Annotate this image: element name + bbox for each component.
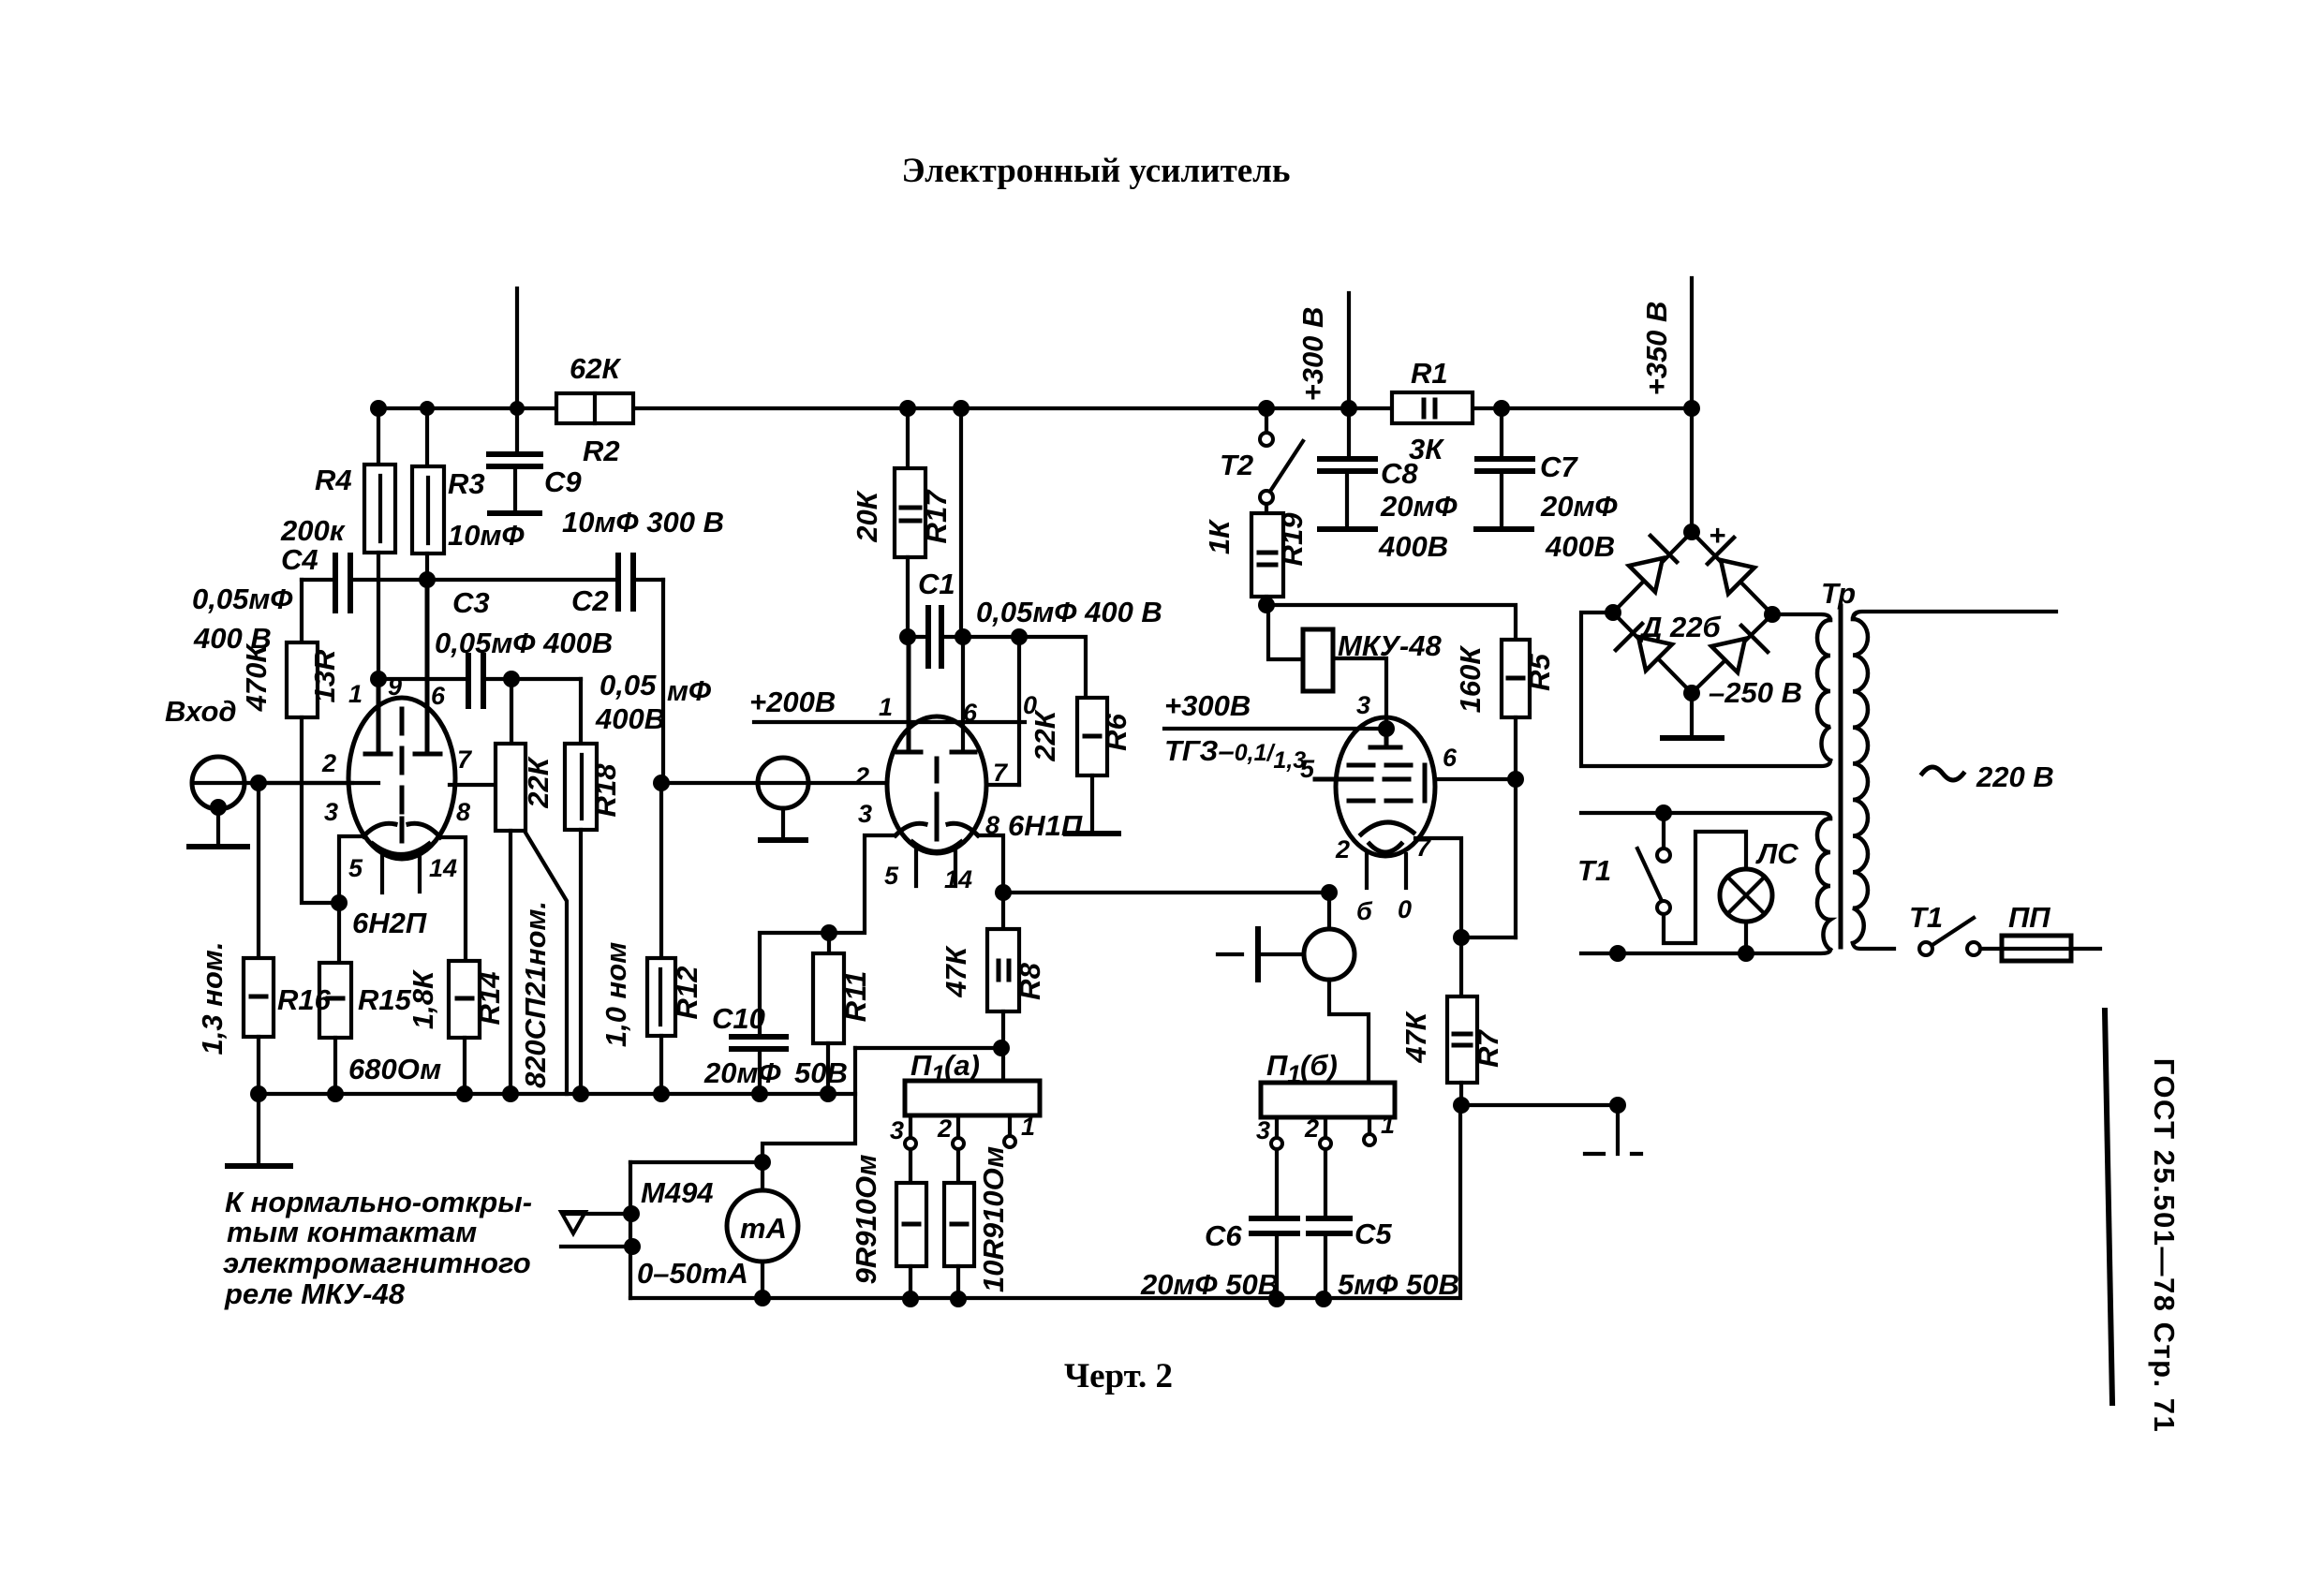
transformer primary (right) winding — [1853, 619, 1868, 943]
svg-text:1,3 ном.: 1,3 ном. — [196, 942, 229, 1055]
switch T1 right — [1919, 942, 1932, 955]
wire: cathode node to thyratron grid — [1003, 891, 1329, 894]
svg-text:1К: 1К — [1203, 519, 1236, 554]
svg-text:Т1: Т1 — [1909, 901, 1943, 934]
svg-text:2: 2 — [937, 1114, 952, 1143]
svg-text:(б): (б) — [1300, 1049, 1338, 1082]
resistor R2 62K — [556, 393, 633, 423]
svg-text:–250 В: –250 В — [1709, 676, 1802, 709]
meter M494 box left — [629, 1162, 632, 1298]
svg-text:6: 6 — [963, 699, 978, 727]
node: bus dots stage2 — [899, 400, 970, 417]
svg-text:ГОСТ 25.501—78 Стр. 71: ГОСТ 25.501—78 Стр. 71 — [2148, 1058, 2181, 1434]
svg-text:+: + — [1709, 519, 1725, 552]
wire: bridge left vertex loop to winding bottom — [1581, 613, 1830, 766]
tube V1 6Н2П envelope — [348, 698, 455, 859]
diode bottom-left — [1616, 624, 1672, 671]
transformer upper-left winding — [1817, 620, 1830, 760]
+350 В riser — [1690, 278, 1694, 532]
svg-text:R6: R6 — [1100, 713, 1132, 750]
svg-text:С5: С5 — [1354, 1218, 1392, 1250]
svg-text:Электронный усилитель: Электронный усилитель — [901, 152, 1290, 190]
svg-text:С9: С9 — [544, 465, 582, 498]
wire: primary winding bottom lead — [1853, 943, 1894, 949]
svg-text:С3: С3 — [452, 586, 490, 619]
V3 pin2 stub — [1365, 854, 1369, 888]
potentiometer 22К 820СП21ном — [510, 679, 513, 744]
svg-text:С8: С8 — [1381, 457, 1418, 490]
svg-text:С1: С1 — [918, 568, 955, 600]
svg-text:Черт. 2: Черт. 2 — [1064, 1357, 1173, 1395]
svg-text:3: 3 — [324, 798, 338, 826]
svg-text:22К: 22К — [522, 756, 555, 808]
terminal block П1(б) — [1261, 1083, 1395, 1117]
svg-text:R3: R3 — [448, 467, 485, 500]
svg-text:б: б — [1356, 897, 1373, 925]
svg-text:6: 6 — [1443, 744, 1458, 772]
note text: К нормально-открытым контактам электромагнитного реле МКУ-48 — [223, 1186, 532, 1310]
capacitor C8 20мФ 400В — [1347, 408, 1351, 456]
resistor R18 — [565, 744, 597, 830]
svg-text:ПП: ПП — [2008, 901, 2050, 934]
svg-text:R5: R5 — [1523, 653, 1556, 690]
svg-text:5: 5 — [884, 862, 899, 890]
svg-text:0–50тА: 0–50тА — [637, 1257, 748, 1290]
svg-text:М494: М494 — [641, 1176, 714, 1209]
svg-text:10мФ: 10мФ — [448, 519, 525, 552]
svg-text:14: 14 — [429, 854, 457, 882]
svg-text:Д 22б: Д 22б — [1638, 611, 1721, 643]
svg-text:R11: R11 — [839, 971, 872, 1023]
V3 anode — [1370, 729, 1400, 747]
svg-text:10мФ 300 В: 10мФ 300 В — [562, 506, 724, 539]
wire: lamp bottom to winding line — [1744, 922, 1748, 953]
svg-text:0: 0 — [1398, 895, 1412, 923]
svg-text:680Ом: 680Ом — [348, 1053, 441, 1085]
terminal lower — [561, 1245, 632, 1248]
svg-text:1: 1 — [1381, 1111, 1395, 1139]
wire: stub up from bus at x549 — [515, 288, 519, 408]
wire: lamp circuit top line — [1581, 813, 1830, 819]
V2 pin5 stub — [914, 850, 918, 886]
diode top-right — [1708, 538, 1754, 594]
svg-text:820СП21ном.: 820СП21ном. — [519, 901, 552, 1088]
capacitor C4 0,05мФ 400В — [302, 578, 335, 582]
svg-text:2: 2 — [321, 749, 336, 777]
V3 cathode arcs — [1361, 822, 1414, 834]
svg-text:20мФ 50В: 20мФ 50В — [1140, 1268, 1279, 1301]
diode top-left — [1629, 536, 1677, 592]
svg-text:7: 7 — [457, 745, 473, 774]
svg-text:R19: R19 — [1276, 512, 1309, 567]
tube V3 ТГЗ thyratron envelope — [1336, 717, 1435, 856]
wire: C1 node down to pin7 line — [1017, 637, 1021, 785]
wire: lower common rail — [630, 1105, 1460, 1298]
resistor 470К (13R) — [300, 580, 303, 642]
resistor R4 200K — [377, 408, 380, 465]
+200В feed line — [754, 720, 1025, 724]
svg-text:R2: R2 — [583, 435, 620, 467]
V2 grid center — [935, 759, 940, 817]
node: bus junction dots left — [370, 400, 525, 417]
resistor R6 22К — [1077, 698, 1107, 775]
V1 pin7 line to pot — [450, 783, 496, 787]
svg-text:6Н1П: 6Н1П — [1008, 809, 1083, 842]
svg-text:1,0 ном: 1,0 ном — [600, 942, 632, 1047]
resistor R17 20К — [906, 408, 910, 468]
svg-text:тым контактам: тым контактам — [227, 1216, 477, 1248]
svg-text:Вход: Вход — [165, 695, 237, 728]
П1(а) pin 2 — [956, 1115, 960, 1137]
svg-text:С2: С2 — [571, 584, 609, 617]
wire: 220V top line — [1853, 612, 2056, 619]
svg-text:62К: 62К — [570, 352, 621, 385]
svg-text:200к: 200к — [280, 514, 346, 547]
svg-text:50В: 50В — [794, 1056, 848, 1089]
wire: П1(а) feed line — [855, 1046, 1001, 1050]
wire: R7 bottom to chassis stem — [1461, 1103, 1618, 1107]
svg-text:400В: 400В — [1378, 530, 1448, 563]
svg-text:20мФ: 20мФ — [1540, 490, 1618, 523]
V3 pin labels — [1300, 691, 1458, 925]
switch T1 left — [1662, 813, 1665, 849]
V3 grid row2 with pin5/6 line — [1315, 777, 1347, 782]
svg-text:47К: 47К — [1399, 1011, 1432, 1063]
svg-text:0: 0 — [1023, 691, 1037, 719]
V2 anode pin6 — [952, 750, 975, 755]
svg-text:3: 3 — [890, 1116, 904, 1144]
svg-text:мФ: мФ — [667, 674, 712, 707]
svg-text:9R910Ом: 9R910Ом — [850, 1155, 882, 1285]
svg-text:R15: R15 — [358, 983, 412, 1016]
wire: bridge right vertex to winding top — [1772, 614, 1830, 620]
V1 pin 5 stub — [380, 850, 384, 893]
resistor R5 160К — [1502, 640, 1530, 717]
wire: V1 cathode right to R14 — [440, 837, 466, 961]
svg-text:400В: 400В — [595, 702, 665, 735]
svg-text:2: 2 — [854, 762, 869, 790]
wire: lamp circuit bottom line — [1581, 950, 1830, 953]
potentiometer wiper to ground rail — [525, 833, 567, 1094]
V3 pin6 line to R5 — [1435, 777, 1516, 781]
svg-text:С10: С10 — [712, 1002, 765, 1035]
svg-text:13R: 13R — [308, 649, 341, 702]
wire: input signal line to V1 grid — [252, 781, 352, 785]
V3 grid dashes row3 — [1349, 799, 1415, 804]
wire: V3 cathode to R7 — [1415, 838, 1461, 937]
svg-text:(а): (а) — [944, 1049, 980, 1082]
svg-text:+350 В: +350 В — [1640, 302, 1673, 396]
svg-text:9: 9 — [388, 672, 402, 701]
node: bus dot right of R1 — [1493, 400, 1510, 417]
V2 anode pin1 — [897, 637, 921, 752]
capacitor C6 20мФ 50В — [1275, 1149, 1279, 1217]
svg-text:47К: 47К — [940, 945, 972, 997]
svg-text:3: 3 — [1256, 1116, 1270, 1144]
svg-text:5мФ 50В: 5мФ 50В — [1338, 1268, 1459, 1301]
wire: bus to V2 pin6 — [959, 408, 963, 637]
capacitor C10 20мФ 50В — [760, 933, 829, 1037]
node: R19 bottom junction — [1258, 597, 1275, 613]
resistor 9R910Ом — [909, 1149, 912, 1183]
V2 pin14 stub — [954, 850, 957, 886]
V1 anode pin6 — [415, 580, 440, 754]
svg-text:400В: 400В — [1545, 530, 1615, 563]
resistor R16 1,3ном — [257, 783, 260, 958]
svg-text:R7: R7 — [1472, 1028, 1504, 1067]
capacitor C5 5мФ 50В — [1324, 1149, 1327, 1217]
svg-text:0,05мФ 400В: 0,05мФ 400В — [435, 627, 613, 659]
capacitor C9 10мФ 300В — [515, 408, 519, 452]
resistor R19 1К — [1265, 504, 1268, 513]
svg-text:7: 7 — [993, 759, 1009, 787]
svg-text:2: 2 — [1304, 1114, 1319, 1143]
resistor R8 47К — [1001, 893, 1005, 929]
svg-text:Т2: Т2 — [1220, 449, 1253, 481]
fuse ПП — [1980, 947, 2002, 951]
svg-text:+200В: +200В — [749, 686, 836, 718]
V3 pin7 stub — [1404, 854, 1408, 888]
wire: rail right end down to M494 loop — [762, 1048, 855, 1162]
wire: T1 to lamp — [1664, 832, 1746, 943]
ground under R6 — [1066, 831, 1118, 836]
svg-text:5: 5 — [348, 854, 363, 882]
svg-text:6Н2П: 6Н2П — [352, 907, 427, 939]
wire: ground rail of stage 1 — [259, 1092, 855, 1096]
wire: V2 anode/C1 node — [908, 637, 1086, 698]
svg-text:С4: С4 — [281, 543, 318, 576]
milliammeter mA — [727, 1190, 798, 1262]
svg-text:0,05мФ 400 В: 0,05мФ 400 В — [976, 596, 1162, 628]
wire: V1 cathode left to R15 — [339, 836, 363, 963]
svg-text:+300 В: +300 В — [1296, 307, 1329, 402]
grid bar symbol — [1218, 952, 1242, 956]
V1 grid line pin2 — [252, 781, 378, 785]
V2 pin labels — [854, 691, 1037, 893]
svg-text:20мФ: 20мФ — [703, 1056, 781, 1089]
svg-text:8: 8 — [456, 798, 470, 826]
svg-text:14: 14 — [944, 865, 972, 893]
capacitor C3 0,05мФ 400В — [378, 677, 468, 681]
resistor R12 1,0ном — [659, 783, 663, 958]
svg-text:С6: С6 — [1205, 1219, 1242, 1252]
svg-text:ЛС: ЛС — [1755, 837, 1799, 870]
svg-text:3: 3 — [1356, 691, 1370, 719]
sidebar rule — [2105, 1011, 2112, 1403]
wire: relay to thyratron anode — [1333, 658, 1386, 729]
bridge rectifier Д226 — [1613, 532, 1772, 693]
svg-text:тА: тА — [740, 1212, 787, 1245]
transformer Тр core — [1839, 606, 1843, 947]
V1 pin labels — [321, 672, 473, 882]
resistor R14 1,8К — [449, 961, 480, 1038]
svg-text:20К: 20К — [851, 490, 883, 542]
node: bus dot T2 — [1258, 400, 1275, 417]
V1 anode pin1 — [365, 679, 391, 754]
svg-text:П: П — [1266, 1049, 1288, 1082]
svg-text:3: 3 — [858, 800, 872, 828]
capacitor C7 20мФ 400В — [1500, 408, 1503, 456]
svg-text:реле МКУ-48: реле МКУ-48 — [224, 1277, 406, 1310]
svg-text:1,8К: 1,8К — [407, 969, 439, 1029]
svg-text:220 В: 220 В — [1976, 760, 2054, 793]
svg-text:R17: R17 — [920, 489, 953, 544]
V1 pin 14 stub — [418, 850, 422, 892]
svg-text:Т1: Т1 — [1577, 854, 1611, 887]
svg-text:R16: R16 — [277, 983, 332, 1016]
svg-text:0,05мФ: 0,05мФ — [192, 583, 293, 615]
svg-text:6: 6 — [431, 682, 446, 710]
П1(б) pin 1 — [1368, 1117, 1371, 1133]
ground at bridge bottom — [1690, 693, 1694, 736]
П1(а) pin 1 — [1008, 1115, 1012, 1135]
signal lamp ЛС — [1720, 869, 1772, 922]
П1(б) pin 3 — [1275, 1117, 1279, 1137]
svg-text:2: 2 — [1335, 835, 1350, 863]
wire: V2 cathode right to R8 node — [978, 835, 1003, 893]
ground symbol below rail — [257, 1094, 260, 1164]
terminal block П1(а) — [1001, 1048, 1005, 1081]
capacitor C1 — [928, 608, 941, 666]
resistor R15 — [319, 963, 351, 1038]
V2 cathode arcs — [896, 823, 925, 835]
test point circle between stages — [758, 758, 808, 808]
resistor 10R910Ом — [956, 1149, 960, 1183]
svg-text:R8: R8 — [1014, 962, 1046, 999]
resistor R3 — [425, 408, 429, 466]
svg-text:С7: С7 — [1540, 450, 1578, 483]
svg-text:1: 1 — [879, 693, 893, 721]
label ~220 В — [1922, 767, 1963, 780]
svg-text:электромагнитного: электромагнитного — [223, 1247, 531, 1279]
tube V2 6Н1П envelope — [887, 716, 986, 853]
svg-text:1: 1 — [1021, 1113, 1035, 1141]
+300 В riser — [1347, 293, 1351, 408]
wire: stage2 grid line — [663, 781, 887, 785]
V1 grid (pin9 center) — [400, 709, 405, 813]
relay coil МКУ-48 — [1303, 629, 1333, 691]
chassis connection dash-dot — [1616, 1105, 1620, 1154]
V3 grid dashes row1 — [1349, 763, 1423, 768]
thyratron grid circle — [1321, 884, 1338, 901]
svg-text:П: П — [910, 1049, 932, 1082]
svg-text:Тр: Тр — [1821, 577, 1856, 610]
svg-text:R4: R4 — [315, 464, 352, 496]
svg-text:R18: R18 — [589, 763, 622, 818]
svg-text:К нормально-откры-: К нормально-откры- — [225, 1186, 532, 1218]
svg-text:R12: R12 — [671, 967, 703, 1020]
wire: main +B bus — [375, 406, 1693, 410]
svg-text:0,05: 0,05 — [600, 669, 657, 701]
V1 cathode arcs — [363, 823, 395, 836]
input jack — [192, 757, 244, 809]
svg-text:160К: 160К — [1454, 645, 1487, 714]
wire: cathode node V2 up from R11 junction — [829, 835, 896, 933]
resistor R11 — [821, 924, 837, 941]
transformer lower-left winding — [1817, 819, 1830, 950]
switch T2 — [1265, 408, 1268, 432]
svg-text:470К: 470К — [240, 643, 273, 713]
svg-text:R14: R14 — [473, 972, 506, 1026]
V2 pin7 line — [986, 783, 1019, 787]
node: junction on coupling row — [419, 571, 436, 588]
П1(б) pin 2 — [1324, 1117, 1327, 1137]
svg-text:1: 1 — [348, 680, 363, 708]
terminal arrow upper — [566, 1212, 631, 1216]
capacitor C2 — [618, 555, 633, 609]
meter M494 box top — [630, 1160, 762, 1164]
wire: R19 to R5 top — [1266, 605, 1516, 640]
wire: C2 down to grid line of V2 — [661, 580, 665, 783]
resistor R1 3К — [1392, 392, 1473, 423]
resistor R7 47К — [1459, 937, 1463, 996]
diode bottom-right — [1711, 626, 1768, 672]
svg-text:10R910Ом: 10R910Ом — [977, 1146, 1010, 1292]
П1(а) pin 3 — [909, 1115, 912, 1137]
wire: R19 junction to relay coil — [1268, 605, 1303, 659]
svg-text:20мФ: 20мФ — [1380, 490, 1458, 523]
svg-text:5: 5 — [1300, 755, 1315, 783]
svg-text:+300В: +300В — [1164, 689, 1251, 722]
svg-text:R1: R1 — [1411, 357, 1448, 390]
